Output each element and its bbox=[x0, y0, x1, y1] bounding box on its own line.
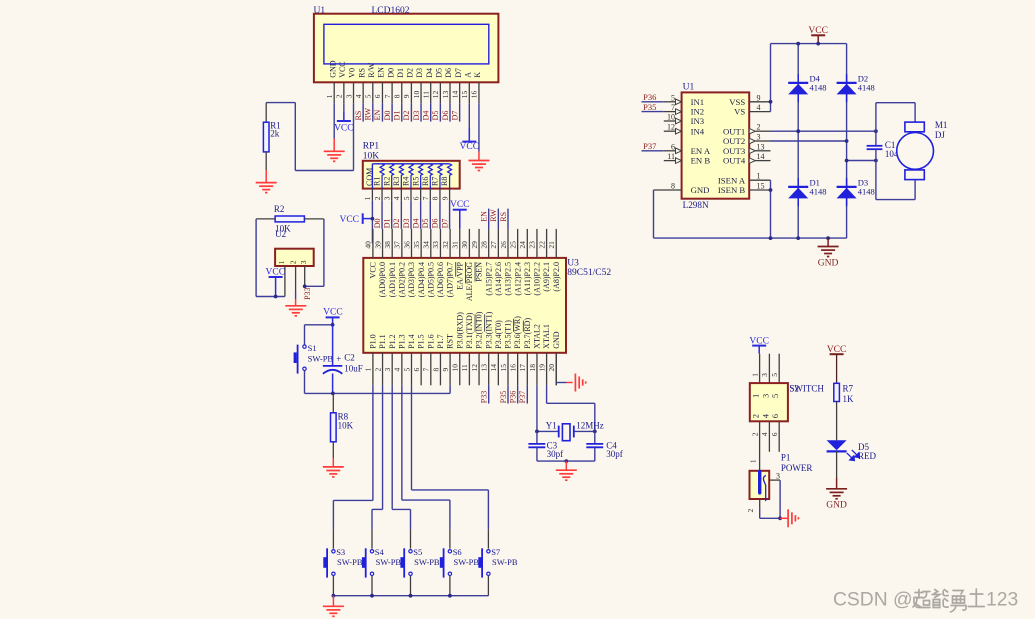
IR receiver U2 body bbox=[275, 249, 314, 266]
U3 top-row pin names bbox=[369, 261, 561, 301]
RP1 designator and value bbox=[363, 141, 380, 161]
S7 labels bbox=[491, 547, 518, 567]
junction RST/C2/R8 bbox=[331, 392, 335, 396]
svg-text:2: 2 bbox=[750, 432, 759, 436]
M1 labels bbox=[935, 120, 948, 140]
power port VCC above S2 switch bbox=[749, 337, 769, 354]
wire P37 to EN A bbox=[642, 150, 664, 152]
wire LCD pin3 V0 to R1 bbox=[266, 103, 353, 171]
svg-text:S4: S4 bbox=[375, 547, 385, 557]
svg-text:5: 5 bbox=[671, 93, 675, 102]
svg-text:2: 2 bbox=[751, 414, 761, 418]
U2 pin 1 wire bbox=[284, 266, 286, 297]
svg-text:P3.3(INT1): P3.3(INT1) bbox=[484, 311, 493, 348]
wire switch common ground rail bbox=[333, 595, 488, 597]
svg-text:12: 12 bbox=[431, 90, 440, 98]
svg-text:D1: D1 bbox=[393, 111, 402, 121]
svg-text:D0: D0 bbox=[383, 111, 392, 121]
svg-text:(AD3)P0.3: (AD3)P0.3 bbox=[407, 262, 416, 297]
diode D3 bbox=[837, 178, 857, 206]
svg-text:P37: P37 bbox=[518, 391, 527, 403]
power connector P1 body bbox=[750, 471, 770, 499]
junction VCC/C2 top bbox=[331, 323, 335, 327]
net labels D0-D7 on RP1-MCU wires bbox=[373, 219, 450, 229]
resistor R2 bbox=[275, 216, 304, 222]
svg-text:31: 31 bbox=[451, 241, 460, 249]
D4 labels bbox=[810, 74, 827, 93]
L298N left pin stubs with input arrows bbox=[654, 99, 682, 190]
LCD pin numbers 1-16 bbox=[325, 90, 479, 98]
svg-text:3: 3 bbox=[760, 373, 769, 377]
GND net label D5 bbox=[826, 501, 847, 511]
svg-text:R3: R3 bbox=[392, 177, 401, 186]
svg-text:33: 33 bbox=[431, 241, 440, 249]
wire GND stem bbox=[827, 238, 829, 246]
power port VCC above R7 (dark red) bbox=[827, 345, 847, 383]
svg-text:D4: D4 bbox=[411, 219, 420, 229]
svg-text:VSS: VSS bbox=[729, 97, 745, 107]
svg-text:25: 25 bbox=[508, 241, 517, 249]
svg-text:3: 3 bbox=[757, 133, 761, 142]
svg-text:3: 3 bbox=[383, 368, 392, 372]
LCD data/control net wires pins 4-14 bbox=[363, 103, 460, 121]
svg-text:7: 7 bbox=[421, 196, 430, 200]
U3 top pin stubs bbox=[373, 229, 556, 258]
wire R1 to ground bbox=[265, 152, 267, 183]
svg-text:30: 30 bbox=[460, 241, 469, 249]
svg-text:123: 123 bbox=[986, 590, 1018, 611]
svg-text:P1.3: P1.3 bbox=[397, 334, 406, 348]
P1 pin3 stub bbox=[769, 479, 780, 481]
svg-text:(AD6)P0.6: (AD6)P0.6 bbox=[436, 262, 445, 297]
wire U3 P1.2 to switch S5 bbox=[392, 385, 410, 548]
P1 pin3 number bbox=[776, 471, 780, 480]
wire VSS/VS to VCC rail bbox=[771, 44, 847, 112]
svg-text:2: 2 bbox=[746, 509, 755, 513]
P1 designator and POWER label bbox=[781, 453, 813, 473]
ground symbol D5 (maroon) bbox=[826, 489, 847, 499]
svg-text:RST: RST bbox=[446, 334, 455, 349]
ground symbol at U3 pin20 (sideways) bbox=[575, 374, 585, 392]
svg-text:D3: D3 bbox=[402, 219, 411, 229]
junction U2 pin3 / R2 bbox=[303, 284, 307, 288]
P1 pin2 number bbox=[746, 509, 755, 513]
wire S4 bottom leg bbox=[371, 576, 373, 596]
svg-text:6: 6 bbox=[411, 196, 420, 200]
svg-text:D3: D3 bbox=[415, 68, 424, 78]
wire R7 to D5 bbox=[836, 402, 838, 441]
D1 labels bbox=[810, 178, 827, 197]
svg-text:GND: GND bbox=[691, 185, 710, 195]
svg-text:GND: GND bbox=[328, 60, 337, 78]
RP1 COM lead bbox=[371, 164, 373, 189]
svg-text:P36: P36 bbox=[643, 92, 656, 102]
svg-text:2: 2 bbox=[757, 123, 761, 132]
svg-text:1K: 1K bbox=[843, 394, 855, 404]
wire rail to ground bbox=[332, 596, 334, 607]
wire ISEN A/B to ground rail bbox=[770, 180, 772, 238]
svg-text:ISEN A: ISEN A bbox=[718, 175, 746, 185]
svg-text:IN1: IN1 bbox=[691, 97, 705, 107]
svg-text:SW-PB: SW-PB bbox=[492, 557, 518, 567]
svg-text:(AD0)P0.0: (AD0)P0.0 bbox=[378, 262, 387, 297]
svg-text:2: 2 bbox=[289, 260, 298, 264]
L298N value label bbox=[683, 200, 709, 210]
svg-text:21: 21 bbox=[547, 241, 556, 249]
wire VCC node to S1 bbox=[305, 325, 333, 345]
svg-text:4: 4 bbox=[393, 368, 402, 372]
net labels P33 P35 P36 P37 below U3 bbox=[480, 391, 528, 403]
wire diode column D2/D3 bbox=[846, 44, 848, 239]
svg-text:1: 1 bbox=[364, 368, 373, 372]
junction P1 ground node bbox=[778, 516, 782, 520]
S4 labels bbox=[375, 547, 402, 567]
svg-text:30pf: 30pf bbox=[547, 449, 564, 459]
LCD module U1 LCD1602 body bbox=[314, 14, 499, 83]
svg-text:(A9)P2.1: (A9)P2.1 bbox=[542, 262, 551, 292]
svg-text:39: 39 bbox=[373, 241, 382, 249]
svg-text:VS: VS bbox=[734, 107, 745, 117]
svg-text:9: 9 bbox=[441, 368, 450, 372]
LCD U1 designator bbox=[314, 6, 326, 16]
svg-text:OUT3: OUT3 bbox=[723, 146, 745, 156]
power port VCC at LCD pin15 bbox=[460, 142, 480, 153]
svg-text:3: 3 bbox=[383, 196, 392, 200]
svg-text:8: 8 bbox=[671, 182, 675, 191]
LCD net labels RS RW EN D0-D7 bbox=[354, 108, 460, 121]
svg-text:SW-PB: SW-PB bbox=[308, 353, 334, 363]
svg-text:29: 29 bbox=[470, 241, 479, 249]
svg-text:89C51/C52: 89C51/C52 bbox=[567, 268, 611, 278]
junction ISENB bbox=[769, 188, 773, 192]
svg-text:L298N: L298N bbox=[683, 200, 709, 210]
watermark CSDN bbox=[833, 589, 1018, 612]
svg-text:POWER: POWER bbox=[781, 463, 813, 473]
svg-text:D7: D7 bbox=[454, 68, 463, 78]
svg-text:DJ: DJ bbox=[935, 130, 945, 140]
wire R8 to ground bbox=[332, 442, 334, 467]
svg-text:R/W: R/W bbox=[367, 62, 376, 78]
D5 labels bbox=[858, 442, 877, 461]
svg-text:28: 28 bbox=[480, 241, 489, 249]
svg-text:36: 36 bbox=[402, 241, 411, 249]
svg-text:(AD2)P0.2: (AD2)P0.2 bbox=[397, 262, 406, 297]
wire S7 bottom leg bbox=[487, 576, 489, 596]
svg-text:7: 7 bbox=[422, 368, 431, 372]
RP1 resistor zigzags R1-R8 bbox=[380, 164, 452, 189]
wire D2 column to motor bottom node bbox=[847, 160, 876, 162]
S3 labels bbox=[336, 547, 363, 567]
svg-text:8: 8 bbox=[393, 94, 402, 98]
svg-text:17: 17 bbox=[518, 364, 527, 372]
RP1 internal bus bbox=[372, 163, 449, 165]
svg-text:(A8)P2.0: (A8)P2.0 bbox=[552, 262, 561, 292]
svg-text:10K: 10K bbox=[338, 420, 354, 430]
LCD value label LCD1602 bbox=[372, 6, 410, 16]
svg-text:12: 12 bbox=[470, 364, 479, 372]
push button S6 bbox=[440, 548, 452, 577]
wire R2 right loop to P33 node bbox=[304, 219, 324, 286]
svg-text:VCC: VCC bbox=[338, 61, 347, 77]
S1 labels bbox=[308, 343, 334, 364]
junction rail/D4 bbox=[796, 42, 800, 46]
svg-text:GND: GND bbox=[818, 259, 839, 269]
L298N left pin numbers bbox=[667, 93, 675, 190]
svg-text:12: 12 bbox=[667, 123, 675, 132]
svg-text:Y1: Y1 bbox=[546, 420, 557, 430]
junction OUT2/D2 column bbox=[845, 139, 849, 143]
svg-text:4: 4 bbox=[354, 94, 363, 98]
capacitor C4 bbox=[586, 431, 603, 461]
U2 pin 3 wire bbox=[304, 266, 306, 286]
svg-text:VCC: VCC bbox=[323, 307, 343, 317]
svg-text:7: 7 bbox=[383, 94, 392, 98]
svg-text:5: 5 bbox=[364, 94, 373, 98]
svg-text:S2: S2 bbox=[789, 383, 799, 393]
junction OUT1/motor left bbox=[874, 129, 878, 133]
ground symbol below R1 bbox=[256, 183, 277, 193]
svg-text:D2: D2 bbox=[402, 111, 411, 121]
svg-text:4: 4 bbox=[392, 196, 401, 200]
ground symbol L298N (maroon) bbox=[818, 247, 839, 257]
junction bottom rail / GND stem bbox=[826, 236, 830, 240]
svg-text:P37: P37 bbox=[643, 141, 656, 151]
capacitor C2 (electrolytic) bbox=[323, 325, 342, 394]
svg-text:(AD4)P0.4: (AD4)P0.4 bbox=[417, 262, 426, 297]
junction VCC / U2 bottom rail bbox=[274, 295, 278, 299]
R2 designator bbox=[274, 204, 285, 214]
svg-text:D2: D2 bbox=[392, 219, 401, 229]
svg-text:5: 5 bbox=[770, 373, 779, 377]
svg-text:PSEN: PSEN bbox=[475, 262, 484, 282]
L298N designator U1 bbox=[683, 83, 695, 93]
wire S5 bottom leg bbox=[410, 576, 412, 596]
wire OUT1 to motor bbox=[771, 130, 876, 132]
RP1 pin numbers 1-9 bbox=[363, 196, 449, 200]
svg-text:RW: RW bbox=[489, 209, 498, 222]
wire LCD pin16 to ground bbox=[478, 103, 480, 160]
junction crystal rail center bbox=[564, 459, 568, 470]
power port VCC left of COM bbox=[339, 213, 372, 225]
svg-text:P35: P35 bbox=[499, 391, 508, 403]
svg-text:(A14)P2.6: (A14)P2.6 bbox=[494, 262, 503, 296]
svg-text:26: 26 bbox=[499, 241, 508, 249]
wire LCD pin15 to VCC bbox=[468, 103, 470, 141]
svg-text:D6: D6 bbox=[431, 219, 440, 229]
resistor R7 bbox=[834, 383, 840, 401]
svg-text:D7: D7 bbox=[440, 219, 449, 229]
svg-text:P1.7: P1.7 bbox=[436, 334, 445, 348]
svg-text:D4: D4 bbox=[422, 111, 431, 121]
svg-text:SW-PB: SW-PB bbox=[376, 557, 402, 567]
svg-text:3: 3 bbox=[776, 471, 780, 480]
svg-text:P1.1: P1.1 bbox=[378, 334, 387, 348]
svg-text:D3: D3 bbox=[412, 111, 421, 121]
wire U3 XTAL1 to crystal bbox=[547, 385, 595, 431]
svg-text:13: 13 bbox=[480, 364, 489, 372]
net labels EN RW RS above U3 bbox=[480, 209, 508, 222]
wire R1 top stub bbox=[265, 103, 267, 123]
svg-text:9: 9 bbox=[440, 196, 449, 200]
svg-text:D6: D6 bbox=[441, 111, 450, 121]
wires U3 P2.7 P2.6 P2.5 to EN RW RS nets bbox=[489, 209, 508, 229]
junction OUT1/D4 column bbox=[796, 129, 800, 133]
svg-text:16: 16 bbox=[508, 364, 517, 372]
svg-text:SW-PB: SW-PB bbox=[337, 557, 363, 567]
svg-text:6: 6 bbox=[671, 142, 675, 151]
ground symbol below U2 bbox=[285, 306, 306, 316]
svg-text:P1.5: P1.5 bbox=[417, 334, 426, 348]
svg-text:10uF: 10uF bbox=[344, 364, 363, 374]
U2 pin numbers 1 2 3 bbox=[277, 260, 308, 264]
R1 labels bbox=[270, 121, 281, 139]
push button S1 bbox=[294, 345, 307, 374]
wire D5 to ground bbox=[836, 451, 838, 488]
wire C2 junction to R8 bbox=[332, 393, 334, 412]
motor driver U1 L298N body bbox=[682, 92, 750, 198]
svg-text:D4: D4 bbox=[425, 68, 434, 78]
svg-text:38: 38 bbox=[383, 241, 392, 249]
C4 labels bbox=[606, 441, 623, 459]
svg-text:14: 14 bbox=[757, 152, 765, 161]
svg-text:27: 27 bbox=[489, 241, 498, 249]
svg-text:IN3: IN3 bbox=[691, 116, 705, 126]
junction bottom rail / D1 column bbox=[796, 236, 800, 240]
U3 bottom-row pin names bbox=[369, 311, 561, 348]
wires RP1 R1-R8 to MCU P0.0-P0.7 bbox=[382, 201, 450, 229]
junction VSS bbox=[769, 100, 773, 104]
LCD pin names bbox=[328, 60, 482, 78]
svg-text:GND: GND bbox=[826, 501, 847, 511]
ground symbol crystal bbox=[556, 470, 577, 480]
ground symbol below R8 bbox=[323, 467, 344, 477]
svg-text:D5: D5 bbox=[421, 219, 430, 229]
svg-text:30pf: 30pf bbox=[606, 449, 623, 459]
junction crystal right bbox=[593, 430, 597, 434]
svg-text:P3.1(TXD): P3.1(TXD) bbox=[465, 312, 474, 349]
capacitor C1 in motor left branch bbox=[867, 103, 883, 200]
svg-text:34: 34 bbox=[422, 241, 431, 249]
power port VCC at U3 pin 31 EA/VPP bbox=[450, 200, 470, 229]
svg-text:R4: R4 bbox=[402, 177, 411, 186]
ground symbol switches bbox=[323, 606, 344, 616]
svg-text:P3.0(RXD): P3.0(RXD) bbox=[455, 312, 464, 349]
svg-text:3: 3 bbox=[299, 260, 308, 264]
push button S5 bbox=[400, 548, 412, 577]
C2 labels bbox=[344, 352, 363, 373]
svg-text:35: 35 bbox=[412, 241, 421, 249]
svg-text:37: 37 bbox=[393, 241, 402, 249]
wire OUT2 to D2 column bbox=[771, 140, 847, 142]
svg-text:P1.0: P1.0 bbox=[369, 334, 378, 348]
wire crystal ground rail bbox=[537, 460, 595, 462]
svg-text:5: 5 bbox=[402, 196, 411, 200]
svg-text:6: 6 bbox=[412, 368, 421, 372]
svg-text:4: 4 bbox=[760, 432, 769, 436]
svg-text:1: 1 bbox=[751, 394, 761, 398]
svg-text:D7: D7 bbox=[450, 111, 459, 121]
push button S3 bbox=[323, 548, 335, 577]
svg-text:EN: EN bbox=[480, 211, 489, 222]
svg-text:4148: 4148 bbox=[858, 187, 875, 197]
diode D2 bbox=[837, 74, 857, 102]
GND net label L298N bbox=[818, 259, 839, 269]
wire RST net from U3 pin9 bbox=[305, 385, 451, 393]
U3 bottom pin numbers 1-20 bbox=[364, 364, 556, 372]
wire U3 XTAL2 to crystal bbox=[536, 385, 538, 431]
svg-text:15: 15 bbox=[499, 364, 508, 372]
svg-text:10: 10 bbox=[412, 90, 421, 98]
svg-text:LCD1602: LCD1602 bbox=[372, 6, 410, 16]
wire motor bottom path bbox=[876, 180, 915, 199]
wire to sideways ground bbox=[780, 517, 788, 519]
push button S4 bbox=[362, 548, 374, 577]
svg-text:EA/VPP: EA/VPP bbox=[455, 261, 464, 289]
svg-text:D0: D0 bbox=[386, 68, 395, 78]
svg-text:(A10)P2.2: (A10)P2.2 bbox=[533, 262, 542, 296]
U2 pin 2 wire to ground bbox=[295, 266, 297, 306]
svg-text:P3.7(RD): P3.7(RD) bbox=[523, 318, 532, 349]
P1 pin1 number bbox=[749, 459, 758, 463]
svg-text:R5: R5 bbox=[411, 177, 420, 186]
svg-text:(AD7)P0.7: (AD7)P0.7 bbox=[446, 262, 455, 297]
svg-text:3: 3 bbox=[344, 94, 353, 98]
junction motor left / lower wire bbox=[874, 159, 878, 163]
R7 labels bbox=[843, 383, 855, 404]
S2 SWITCH label (overlapped designator) bbox=[789, 383, 824, 393]
svg-text:RS: RS bbox=[354, 111, 363, 121]
svg-text:2: 2 bbox=[373, 196, 382, 200]
S2 internal pin numbers bbox=[751, 394, 781, 418]
svg-text:4: 4 bbox=[760, 413, 770, 418]
diode D1 bbox=[788, 178, 808, 206]
motor M1 bbox=[897, 122, 934, 179]
svg-text:XTAL1: XTAL1 bbox=[542, 324, 551, 349]
svg-text:R6: R6 bbox=[421, 177, 430, 186]
svg-text:1: 1 bbox=[750, 373, 759, 377]
wire L298N GND pin 8 loop bbox=[654, 190, 847, 238]
svg-text:K: K bbox=[473, 72, 482, 78]
svg-text:6: 6 bbox=[770, 414, 780, 418]
svg-text:(A13)P2.5: (A13)P2.5 bbox=[504, 262, 513, 296]
svg-text:D0: D0 bbox=[373, 219, 382, 229]
push button S7 bbox=[478, 548, 490, 577]
svg-text:RS: RS bbox=[357, 68, 366, 78]
resistor R1 bbox=[263, 122, 269, 152]
svg-text:U2: U2 bbox=[275, 229, 286, 239]
svg-text:P1: P1 bbox=[781, 453, 791, 463]
svg-text:EN: EN bbox=[377, 67, 386, 78]
svg-text:P3.5(T1): P3.5(T1) bbox=[504, 320, 513, 349]
svg-text:15: 15 bbox=[757, 182, 765, 191]
svg-text:5: 5 bbox=[402, 368, 411, 372]
svg-text:1: 1 bbox=[757, 172, 761, 181]
svg-text:6: 6 bbox=[373, 94, 382, 98]
junction D2 col / lower wire bbox=[845, 159, 849, 163]
RP1 internal labels COM R1-R8 bbox=[365, 168, 449, 186]
svg-text:XTAL2: XTAL2 bbox=[533, 324, 542, 349]
svg-text:VCC: VCC bbox=[460, 142, 480, 152]
resistor pack RP1 body bbox=[363, 161, 460, 189]
L298N right pin stubs with output arrows bbox=[749, 102, 770, 190]
svg-text:P3.6(WR): P3.6(WR) bbox=[513, 316, 522, 349]
net labels P36 P35 P37 bbox=[643, 92, 656, 151]
svg-text:19: 19 bbox=[537, 364, 546, 372]
U3 designator bbox=[567, 258, 579, 268]
svg-text:12MHz: 12MHz bbox=[576, 420, 604, 430]
ground symbol LCD pin16 bbox=[468, 161, 489, 171]
svg-text:OUT2: OUT2 bbox=[723, 136, 745, 146]
